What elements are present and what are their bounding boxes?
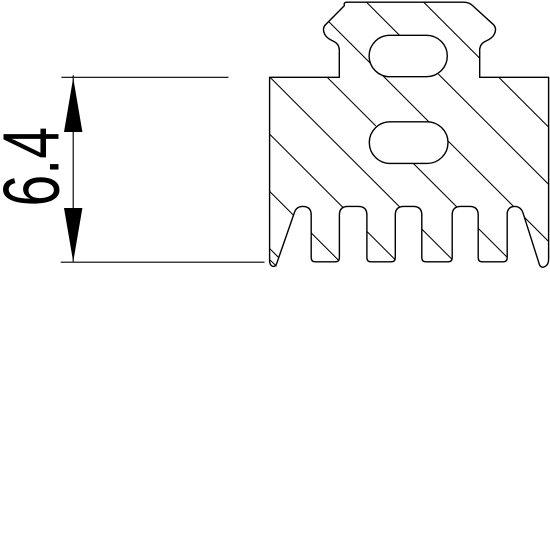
dimension: bottom extension line [61,261,265,263]
hatch line 6 [307,0,550,550]
chamfer line across bottom-left spike tip [270,260,277,266]
hatch line 5 [250,0,550,550]
hatch line 4 [193,0,550,550]
hatch line 8 [422,0,550,550]
hatch line 7 [364,0,550,550]
arrow down [64,208,82,262]
arrow up [64,78,82,132]
dimension line vertical [72,75,74,262]
hatch line 9 [479,0,550,550]
slot hole lower [369,122,448,164]
profile outline (seal cross-section) [270,2,549,267]
svg-text:6.4: 6.4 [0,127,76,207]
slot hole upper [369,35,447,76]
hatch line 3 [136,0,550,550]
dimension: top extension line [61,76,228,78]
